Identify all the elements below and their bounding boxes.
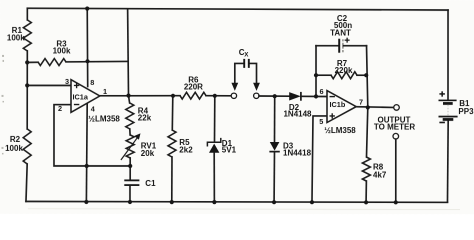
- op-amp IC1b: [327, 91, 356, 123]
- wire: D1 to ground rail: [213, 153, 215, 202]
- wire: C1 to ground rail: [129, 186, 131, 202]
- wire: IC1a pin 4 drop to ground rail: [85, 103, 88, 202]
- wire: bottom ground rail: [26, 200, 448, 203]
- wire: D1 drop from rail: [213, 96, 215, 142]
- svg-text:½LM358: ½LM358: [324, 126, 356, 135]
- terminal: output upper socket: [394, 105, 400, 111]
- diode D3 1N4418: [269, 142, 279, 152]
- wire: R5 to ground rail: [171, 157, 173, 202]
- svg-text:TO METER: TO METER: [374, 123, 415, 132]
- resistor R5: [168, 130, 176, 157]
- wire: feedback loop right vertical to output node: [366, 46, 367, 108]
- wire: left spine top segment: [26, 8, 28, 20]
- svg-text:C1: C1: [145, 179, 156, 188]
- wire: IC1a pin 8 supply line from top rail: [86, 9, 89, 87]
- terminal: output lower socket: [393, 133, 399, 139]
- resistor R4: [126, 103, 134, 129]
- svg-text:IC1b: IC1b: [329, 100, 345, 109]
- svg-text:20k: 20k: [141, 149, 155, 158]
- junction dots (nodes): [85, 6, 89, 10]
- wire: R4 to RV1: [129, 129, 131, 135]
- svg-text:5V1: 5V1: [222, 145, 237, 154]
- diode D2 1N4148: [289, 92, 301, 101]
- wire: R7 right lead: [357, 74, 366, 76]
- resistor R3: [38, 59, 66, 66]
- svg-text:TANT: TANT: [330, 28, 351, 37]
- svg-text:4k7: 4k7: [373, 170, 387, 179]
- svg-text:PP3: PP3: [458, 107, 474, 116]
- resistor R8: [362, 157, 370, 181]
- wire: lower output terminal to ground rail: [395, 139, 397, 202]
- svg-text:5: 5: [319, 117, 323, 126]
- wire: IC1b pin 5 L-wire to ground: [312, 116, 327, 202]
- svg-text:100k: 100k: [53, 46, 71, 55]
- wire: R4 chain from output node: [129, 96, 130, 103]
- wire: right Cx terminal to D2: [259, 95, 289, 97]
- wire: D3 drop: [273, 96, 275, 142]
- svg-text:3: 3: [65, 77, 69, 86]
- svg-text:IC1a: IC1a: [73, 92, 89, 101]
- resistor R7: [331, 72, 357, 79]
- svg-text:2k2: 2k2: [179, 145, 193, 154]
- wire: right rail battery top drop: [447, 10, 449, 100]
- svg-text:7: 7: [359, 98, 363, 107]
- terminal: Cx left socket: [231, 93, 236, 98]
- wire: left spine bottom segment: [26, 164, 27, 202]
- svg-text:2: 2: [58, 104, 62, 113]
- wire: vertical from top rail to IC1a output node: [127, 9, 130, 96]
- wire: IC1b output pin 7 to terminal: [356, 106, 394, 109]
- wire: C2 left lead: [316, 45, 339, 47]
- wire: D2 to IC1b pin 6: [301, 95, 327, 97]
- wire: top positive rail: [27, 8, 448, 10]
- capacitor C1: [124, 180, 139, 185]
- resistor R2: [23, 129, 31, 164]
- resistor R1: [23, 20, 31, 51]
- wire: feedback loop left vertical: [315, 46, 317, 97]
- op-amp IC1a: [71, 80, 100, 113]
- capacitor Cx (under test): [235, 59, 257, 83]
- resistor R6: [180, 92, 206, 99]
- arrow: Cx right test lead: [253, 83, 260, 91]
- wire: RV1 to C1 node: [129, 158, 131, 180]
- svg-text:220k: 220k: [335, 66, 353, 75]
- svg-text:1: 1: [103, 87, 107, 96]
- svg-text:22k: 22k: [138, 114, 152, 123]
- wire: R8 to ground rail: [365, 181, 367, 202]
- svg-text:½LM358: ½LM358: [88, 114, 120, 123]
- wire: R5 drop from output rail: [171, 96, 174, 130]
- wire: D3 to ground rail: [273, 152, 275, 202]
- zener diode D1 5V1: [207, 139, 220, 153]
- svg-text:6: 6: [319, 87, 323, 96]
- wire: C2 right lead: [343, 45, 366, 47]
- capacitor C2 500n TANT: [339, 38, 349, 53]
- svg-text:8: 8: [90, 78, 94, 87]
- wire: left spine middle segment: [26, 51, 28, 129]
- wire: R3 feedback line to vertical: [66, 60, 128, 63]
- trimmer RV1: [121, 133, 140, 159]
- wire: IC1a pin 2 input L-wire: [54, 105, 130, 166]
- wire: right rail battery bottom drop: [446, 120, 449, 203]
- wire: R7 left lead: [316, 74, 331, 76]
- svg-text:220R: 220R: [184, 83, 203, 92]
- svg-text:100k: 100k: [5, 144, 23, 153]
- wire: R6 to left Cx terminal: [206, 95, 231, 97]
- svg-text:1N4148: 1N4148: [283, 110, 312, 119]
- svg-text:100k: 100k: [7, 33, 25, 42]
- terminal: Cx right socket: [254, 93, 259, 98]
- battery B1 PP3: [438, 91, 457, 122]
- scan artifacts (left margin specks, bottom shadow): [1, 55, 4, 155]
- svg-text:1N4418: 1N4418: [283, 149, 312, 158]
- wire: IC1a pin 3 input from divider node: [27, 84, 71, 86]
- wire: R8 drop from output node: [366, 107, 367, 157]
- arrow: Cx left test lead: [231, 83, 238, 91]
- wire: IC1a output to R6: [100, 95, 180, 97]
- wire: R3 feedback line left stub: [27, 61, 38, 63]
